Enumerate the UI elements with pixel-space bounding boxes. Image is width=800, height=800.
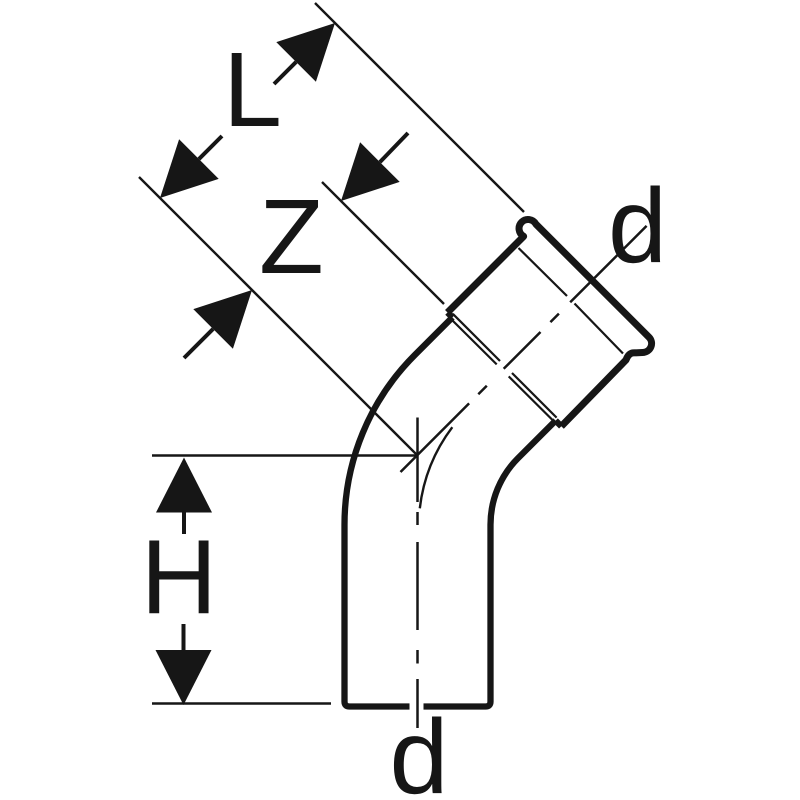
shoulder step cap lower	[556, 421, 562, 427]
dimension L arrow left (SW pointing)	[160, 139, 219, 198]
shoulder step cap upper	[448, 313, 453, 318]
socket outline: upper wall, mouth face with rounded corners, lower wall	[448, 219, 652, 426]
vertical centerline (dash-dot)	[416, 418, 419, 729]
dimension L arrow right tail	[274, 62, 296, 84]
svg-text:d: d	[608, 167, 667, 285]
svg-text:Z: Z	[259, 178, 324, 296]
extension line: mouth face plane (for L)	[315, 3, 524, 212]
shoulder double line (insertion stop), outer	[453, 314, 557, 418]
svg-text:L: L	[223, 31, 282, 149]
H bottom extension line	[152, 702, 331, 704]
dimension Z arrow right tail	[380, 133, 408, 162]
dimension H arrow up	[156, 458, 212, 513]
H top extension line	[152, 454, 418, 456]
svg-text:d: d	[390, 698, 449, 800]
pipe body outline left: upper arm wall, outer bend arc, left wall, bottom end left part	[345, 317, 453, 706]
extension line: shoulder plane (for Z)	[322, 182, 444, 304]
dimension Z arrow left (NE pointing, outside style)	[193, 290, 252, 349]
shoulder double line, inner	[453, 321, 554, 421]
diagonal centerline along socket axis (dash-dot)	[401, 226, 647, 472]
bend axis arc (thin)	[420, 427, 453, 508]
dimension H arrow down tail	[182, 624, 186, 650]
dimension Z arrow right (SW pointing, outside style)	[341, 142, 400, 201]
dimension H arrow up tail	[182, 513, 186, 535]
dimension L arrow left tail	[199, 136, 222, 159]
extension line: vertex plane (for L and Z)	[139, 177, 418, 456]
dimension Z arrow left tail	[184, 329, 213, 358]
dimension H arrow down	[156, 650, 212, 705]
svg-text:H: H	[141, 519, 218, 637]
pipe bottom end right part, right wall, inner bend arc, lower arm wall	[424, 421, 556, 707]
dimension L arrow right (NE pointing)	[276, 23, 335, 82]
socket mouth inner edge line	[519, 248, 624, 354]
